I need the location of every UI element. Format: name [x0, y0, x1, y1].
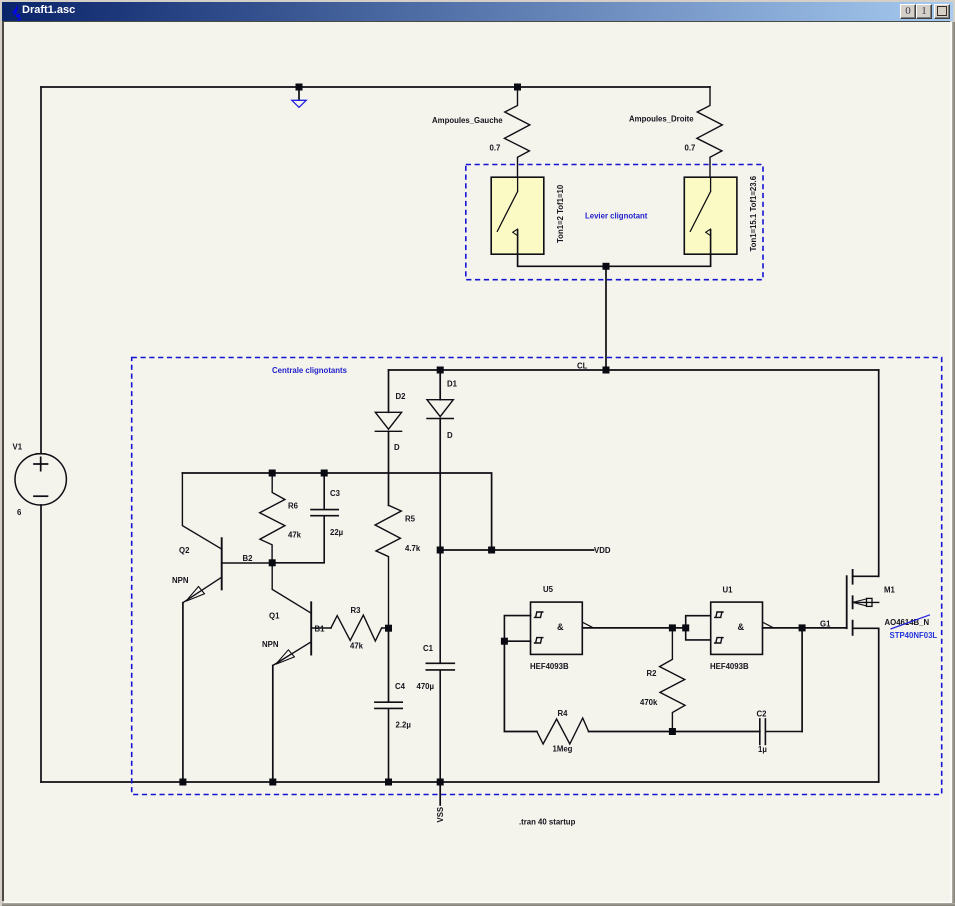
junction VDD-bus: [488, 547, 495, 554]
box Levier clignotant: [466, 165, 763, 280]
wire ground stub: [298, 87, 300, 100]
label U5: [543, 585, 554, 594]
svg-text:C3: C3: [330, 489, 341, 498]
svg-text:C4: C4: [395, 682, 406, 691]
svg-text:R3: R3: [351, 606, 362, 615]
svg-text:U1: U1: [723, 586, 734, 595]
junction R3-R5-C4: [385, 625, 392, 632]
wire bottom bus: [41, 781, 879, 783]
svg-text:D: D: [447, 431, 453, 440]
wire U1 output to gate: [763, 627, 847, 629]
resistor R6: [260, 473, 285, 563]
value HEF4093B of U1: [710, 662, 749, 671]
capacitor C3: [272, 473, 338, 563]
wire U5 output: [582, 627, 685, 629]
label C2: [757, 710, 768, 719]
junction top resistor left: [514, 84, 521, 91]
voltage source V1: [15, 454, 66, 505]
node CL: [577, 362, 588, 371]
junction R6 top: [269, 470, 276, 477]
value 4.7k: [405, 544, 421, 553]
label Levier clignotant: [585, 212, 648, 221]
junction node G1: [799, 624, 806, 631]
junction U1 input tie: [682, 624, 689, 631]
svg-text:&: &: [738, 622, 745, 632]
svg-text:M1: M1: [884, 586, 895, 595]
value NPN of Q2: [172, 576, 189, 585]
value HEF4093B of U5: [530, 662, 569, 671]
diode D2: [375, 370, 401, 431]
value 2.2u: [396, 721, 412, 730]
svg-text:Q1: Q1: [269, 612, 280, 621]
label V1: [13, 443, 23, 452]
svg-text:Q2: Q2: [179, 546, 190, 555]
svg-text:D1: D1: [447, 380, 458, 389]
label U1: [723, 586, 734, 595]
wire CL drop: [605, 266, 607, 370]
junction bottom C1-VSS: [437, 779, 444, 786]
svg-text:Ton1=15.1 Tof1=23.6: Ton1=15.1 Tof1=23.6: [749, 175, 758, 251]
resistor Ampoules_Droite: [697, 87, 722, 178]
svg-text:470k: 470k: [640, 698, 658, 707]
svg-text:47k: 47k: [288, 531, 302, 540]
wire Q2 emitter: [182, 603, 184, 782]
amp glyph U1: [738, 622, 745, 632]
svg-text:Centrale clignotants: Centrale clignotants: [272, 366, 348, 375]
ground symbol: [292, 100, 306, 107]
label C4: [395, 682, 406, 691]
label M1: [884, 586, 895, 595]
label R4: [558, 709, 569, 718]
svg-text:G1: G1: [820, 620, 831, 629]
value 470k: [640, 698, 658, 707]
svg-text:Ampoules_Gauche: Ampoules_Gauche: [432, 116, 503, 125]
wire top bus: [41, 86, 710, 88]
svg-text:470µ: 470µ: [417, 682, 435, 691]
svg-text:&: &: [557, 622, 564, 632]
node B2: [243, 554, 254, 563]
wire left rail top: [40, 87, 42, 454]
junction bottom C4: [385, 779, 392, 786]
amp glyph U5: [557, 622, 564, 632]
wire CL bus: [389, 369, 879, 371]
directive .tran 40 startup: [519, 818, 576, 827]
value D of D2: [394, 443, 400, 452]
svg-text:4.7k: 4.7k: [405, 544, 421, 553]
mosfet M1: [847, 570, 879, 635]
net VSS: [436, 807, 445, 823]
junction VDD-C1: [437, 547, 444, 554]
wire Q1 emitter: [272, 666, 274, 783]
value 470u: [417, 682, 435, 691]
svg-text:U5: U5: [543, 585, 554, 594]
resistor Ampoules_Gauche: [504, 87, 529, 178]
value 0.7 right: [685, 144, 696, 153]
wire M1 drain rail: [878, 370, 880, 576]
resistor R5: [375, 505, 401, 628]
node G1: [820, 620, 831, 629]
wire switch S2 output: [606, 254, 711, 266]
svg-text:R2: R2: [647, 669, 658, 678]
svg-text:.tran 40 startup: .tran 40 startup: [519, 818, 576, 827]
label Ampoules_Droite: [629, 115, 694, 124]
label R5: [405, 515, 416, 524]
transistor Q2: [182, 473, 272, 603]
svg-text:B2: B2: [243, 554, 254, 563]
label Q1: [269, 612, 280, 621]
label Q2: [179, 546, 190, 555]
wire M1 source: [878, 628, 880, 782]
wire switch S1 output: [518, 254, 606, 266]
label D1: [447, 380, 458, 389]
wire D2 to R5: [388, 431, 390, 505]
switch S2 body: [684, 177, 737, 254]
svg-text:R5: R5: [405, 515, 416, 524]
svg-text:Ampoules_Droite: Ampoules_Droite: [629, 115, 694, 124]
box Centrale clignotants: [132, 358, 942, 795]
svg-text:R6: R6: [288, 502, 299, 511]
value 0.7 left: [490, 144, 501, 153]
svg-text:STP40NF03L: STP40NF03L: [890, 631, 938, 640]
junction bottom Q1e: [269, 779, 276, 786]
junction ground: [296, 84, 303, 91]
title bar: [2, 2, 953, 21]
value 47k of R6: [288, 531, 302, 540]
junction switches common: [603, 263, 610, 270]
svg-text:HEF4093B: HEF4093B: [530, 662, 569, 671]
svg-text:0.7: 0.7: [490, 144, 501, 153]
junction U5 inputs: [501, 638, 508, 645]
svg-text:HEF4093B: HEF4093B: [710, 662, 749, 671]
app icon: [4, 2, 28, 26]
wire D1 to VDD node: [439, 419, 441, 551]
value NPN of Q1: [262, 640, 279, 649]
switch S1 body: [491, 177, 544, 254]
label C3: [330, 489, 341, 498]
svg-text:Levier clignotant: Levier clignotant: [585, 212, 648, 221]
junction R2 bottom: [669, 728, 676, 735]
value D of D1: [447, 431, 453, 440]
svg-text:1µ: 1µ: [758, 745, 767, 754]
wire VDD rail: [440, 549, 593, 551]
svg-text:22µ: 22µ: [330, 528, 344, 537]
value Ton1=15.1 Tof1=23.6: [749, 175, 758, 251]
svg-text:B1: B1: [315, 625, 326, 634]
wire upper bus B2 supply: [182, 473, 491, 550]
transistor Q1: [272, 563, 331, 666]
junction CL: [603, 367, 610, 374]
wire U5 input drop to R4: [504, 641, 537, 731]
wire C2 riser to G1: [801, 628, 803, 732]
label R6: [288, 502, 299, 511]
label D2: [396, 392, 407, 401]
value 1Meg: [553, 745, 573, 754]
svg-text:D: D: [394, 443, 400, 452]
resistor R4: [537, 718, 589, 744]
resistor R3: [331, 615, 389, 641]
svg-text:R4: R4: [558, 709, 569, 718]
value Ton1=2 Tof1=10: [556, 184, 565, 243]
svg-text:1Meg: 1Meg: [553, 745, 573, 754]
svg-text:NPN: NPN: [172, 576, 189, 585]
wire left rail bottom: [40, 505, 42, 782]
svg-text:6: 6: [17, 508, 22, 517]
svg-text:D2: D2: [396, 392, 407, 401]
value 47k of R3: [350, 642, 364, 651]
svg-text:VSS: VSS: [436, 807, 445, 823]
diode D1: [427, 370, 453, 419]
svg-text:47k: 47k: [350, 642, 364, 651]
value AO4614B_N struck out: [885, 618, 930, 627]
wire R4 to R2 to C2: [589, 731, 760, 733]
junction C3 top: [321, 470, 328, 477]
svg-text:NPN: NPN: [262, 640, 279, 649]
node VDD: [594, 546, 611, 555]
strike-through on AO4614B_N: [891, 615, 931, 629]
svg-text:2.2µ: 2.2µ: [396, 721, 412, 730]
label C1: [423, 644, 434, 653]
resistor R2: [660, 628, 685, 732]
value 6: [17, 508, 22, 517]
svg-text:VDD: VDD: [594, 546, 611, 555]
node B1: [315, 625, 326, 634]
capacitor C2: [760, 719, 802, 745]
svg-text:0.7: 0.7: [685, 144, 696, 153]
svg-text:C1: C1: [423, 644, 434, 653]
junction bottom Q2e: [179, 779, 186, 786]
gate U1: [686, 602, 774, 654]
gate U5: [504, 602, 593, 654]
svg-text:C2: C2: [757, 710, 768, 719]
window buttons: [900, 4, 916, 19]
capacitor C4: [375, 702, 402, 782]
label Centrale clignotants: [272, 366, 348, 375]
label R2: [647, 669, 658, 678]
svg-text:V1: V1: [13, 443, 23, 452]
junction node B2: [269, 559, 276, 566]
value 22u: [330, 528, 344, 537]
svg-text:Ton1=2 Tof1=10: Ton1=2 Tof1=10: [556, 184, 565, 243]
junction D1 top: [437, 367, 444, 374]
value 1u: [758, 745, 767, 754]
value STP40NF03L: [890, 631, 938, 640]
net VSS stub: [439, 782, 441, 805]
junction R2 top: [669, 624, 676, 631]
label Ampoules_Gauche: [432, 116, 503, 125]
svg-text:CL: CL: [577, 362, 588, 371]
label R3: [351, 606, 362, 615]
capacitor C1: [426, 550, 454, 782]
wire R5/R3 node to C4: [388, 628, 390, 702]
